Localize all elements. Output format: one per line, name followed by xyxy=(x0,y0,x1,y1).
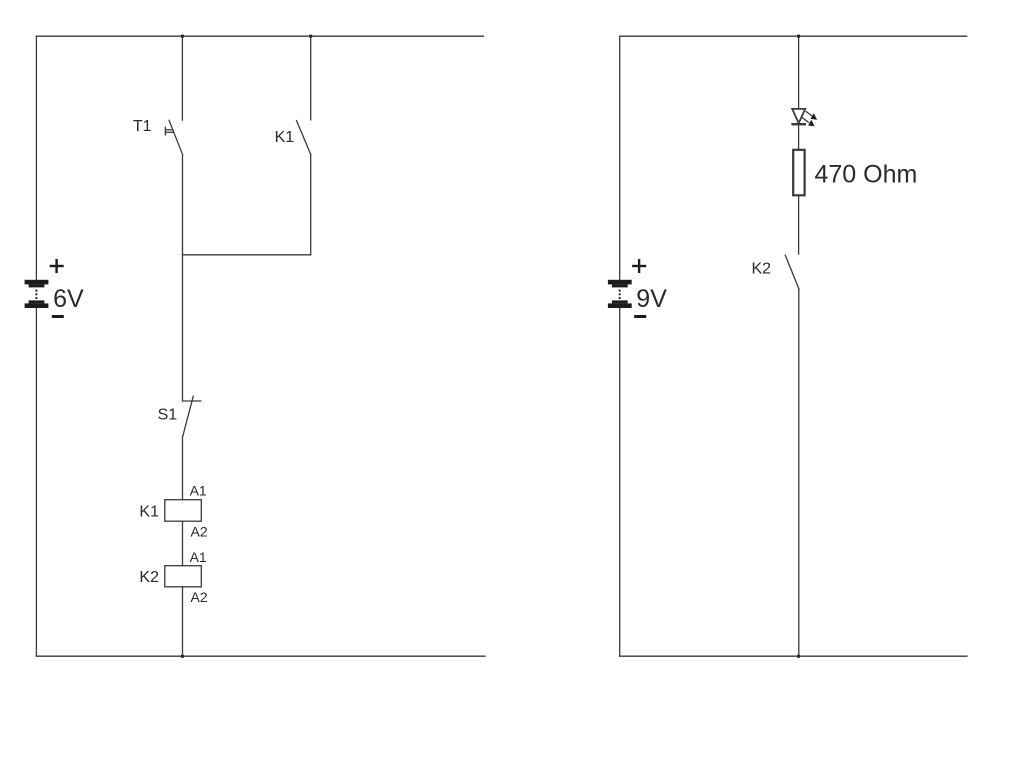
label: battery B2 minus sign xyxy=(636,315,645,318)
svg-text:A1: A1 xyxy=(190,482,207,498)
wire: coil K2 to bottom rail xyxy=(182,587,184,656)
wire: resistor R1 to contact K2 xyxy=(798,196,800,254)
switch S1 blade xyxy=(183,396,194,436)
contact K2 blade xyxy=(785,255,799,289)
node: right bottom rail junction xyxy=(797,655,800,658)
label: battery B1 minus sign xyxy=(53,315,62,318)
LED D1 triangle xyxy=(792,109,805,123)
svg-text:K1: K1 xyxy=(139,504,159,521)
resistor R1 xyxy=(793,150,804,196)
node: top rail junction at K1 branch xyxy=(309,35,312,38)
contact K1 blade xyxy=(297,121,311,155)
wire: coil K1 to coil K2 xyxy=(182,521,184,566)
battery B1 6V xyxy=(25,280,49,308)
svg-text:K2: K2 xyxy=(752,260,772,277)
wire: right circuit left vertical lower xyxy=(619,308,621,656)
svg-text:A2: A2 xyxy=(191,589,208,605)
node: right top rail junction xyxy=(797,35,800,38)
wire: horizontal link K1 branch to T1 branch xyxy=(183,254,311,256)
wire: T1 bottom to S1 xyxy=(182,155,184,401)
wire: right circuit top rail xyxy=(620,35,967,37)
svg-text:9V: 9V xyxy=(636,285,667,313)
wire: left circuit bottom rail xyxy=(36,655,485,657)
relay coil K1 xyxy=(165,500,202,522)
node: bottom rail junction xyxy=(181,655,184,658)
battery B2 9V xyxy=(608,280,632,308)
svg-text:S1: S1 xyxy=(158,407,178,424)
wire: left circuit left vertical lower xyxy=(35,308,37,656)
wire: LED branch from top rail xyxy=(798,36,800,109)
pushbutton T1 blade xyxy=(169,120,183,154)
svg-text:470 Ohm: 470 Ohm xyxy=(815,160,918,188)
wire: K1 contact branch from top rail xyxy=(310,36,312,120)
wire: contact K2 to bottom rail xyxy=(798,289,800,656)
wire: LED to resistor R1 xyxy=(798,124,800,149)
svg-text:K2: K2 xyxy=(139,569,159,586)
wire: right circuit left vertical upper xyxy=(619,36,621,280)
wire: left circuit left vertical upper xyxy=(35,36,37,280)
svg-text:6V: 6V xyxy=(53,285,84,313)
label: battery B2 plus sign xyxy=(633,260,645,272)
label: battery B1 plus sign xyxy=(51,260,63,272)
LED D1 cathode bar xyxy=(793,123,805,125)
pushbutton T1 actuator xyxy=(165,127,173,135)
relay coil K2 xyxy=(165,566,202,587)
wire: S1 to coil K1 xyxy=(182,436,184,500)
svg-text:A2: A2 xyxy=(191,523,208,539)
node: top rail junction at T1 branch xyxy=(181,35,184,38)
wire: right circuit bottom rail xyxy=(620,655,967,657)
wire: T1 branch from top rail xyxy=(181,36,183,120)
switch S1 (NC) terminal bar xyxy=(183,400,201,402)
svg-text:A1: A1 xyxy=(190,549,207,565)
LED D1 emission arrow 1 xyxy=(806,112,817,120)
LED D1 emission arrow 2 xyxy=(802,118,814,127)
svg-text:K1: K1 xyxy=(275,129,295,146)
wire: left circuit top rail xyxy=(36,35,483,37)
wire: K1 contact to link wire xyxy=(310,154,312,255)
svg-text:T1: T1 xyxy=(133,118,152,135)
